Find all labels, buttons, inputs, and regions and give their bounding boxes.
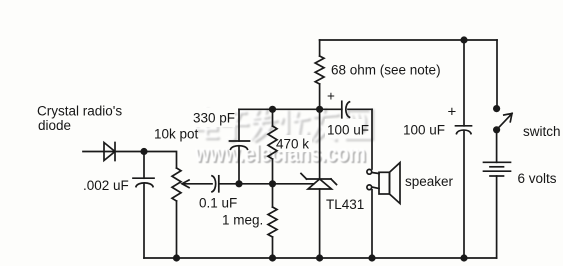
diode D1 (crystal radio's diode) [104, 143, 115, 161]
svg-text:10k pot: 10k pot [154, 127, 199, 142]
wire: left column down [143, 184, 145, 258]
node: 0.1uF / 330pF junction [235, 180, 242, 187]
svg-text:0.1 uF: 0.1 uF [199, 196, 237, 211]
svg-text:1 meg.: 1 meg. [222, 213, 263, 228]
white boxes behind labels (watermark knockout) [190, 108, 363, 152]
node: 68ohm / TL431 / 100uF junction [316, 106, 323, 113]
svg-text:68 ohm (see note): 68 ohm (see note) [331, 63, 441, 78]
capacitor C3 330 pF [230, 109, 250, 184]
svg-text:switch: switch [523, 124, 561, 139]
svg-text:+: + [448, 104, 457, 121]
resistor R2 470 k [268, 109, 277, 184]
speaker LS1 [367, 163, 400, 258]
node: 470k/1meg junction [269, 180, 276, 187]
node: top rail / 100uF filter [460, 36, 467, 43]
resistor R3 1 meg [268, 184, 277, 258]
capacitor C5 100 uF filter [456, 40, 472, 258]
battery BT1 6 volts [484, 162, 511, 258]
node: diode / .002uF / pot junction [140, 148, 147, 155]
svg-text:TL431: TL431 [326, 197, 364, 212]
resistor R4 68 ohm [315, 40, 324, 109]
node: speaker bottom on rail [368, 254, 375, 261]
svg-text:+: + [327, 89, 335, 104]
switch S1 [493, 40, 512, 162]
svg-text:Crystal radio's: Crystal radio's [37, 104, 122, 119]
svg-text:speaker: speaker [405, 174, 454, 189]
svg-text:6 volts: 6 volts [518, 171, 557, 186]
svg-text:diode: diode [38, 118, 71, 133]
wire: junction to pot top [144, 152, 177, 169]
capacitor C4 100 uF coupling [342, 101, 372, 169]
capacitor C1 .002 uF [133, 152, 154, 187]
wire: diode input lead [83, 151, 144, 153]
wire: upper mid rail [239, 108, 342, 110]
wire: bottom rail [144, 257, 497, 259]
node: 470k top [269, 106, 276, 113]
watermark url www.elecfans.com [194, 141, 367, 170]
capacitor C2 0.1 uF [212, 176, 239, 192]
wire: mid row [239, 183, 314, 185]
svg-text:330 pF: 330 pF [193, 111, 235, 126]
wire: pot bottom lead [176, 201, 178, 258]
shunt regulator U1 TL431 [301, 109, 337, 258]
svg-text:100 uF: 100 uF [403, 123, 445, 138]
node: pot bottom on rail [173, 254, 180, 261]
svg-text:100 uF: 100 uF [327, 123, 369, 138]
pot wiper arrow [182, 180, 212, 188]
node: TL431 anode on rail [316, 254, 323, 261]
potentiometer R1 10k pot [172, 168, 181, 201]
svg-text:470 k: 470 k [276, 137, 309, 152]
wire: top rail [320, 39, 497, 41]
node: 100uF filter bottom on rail [460, 254, 467, 261]
node: 1meg bottom on rail [269, 254, 276, 261]
svg-text:.002 uF: .002 uF [83, 178, 129, 193]
